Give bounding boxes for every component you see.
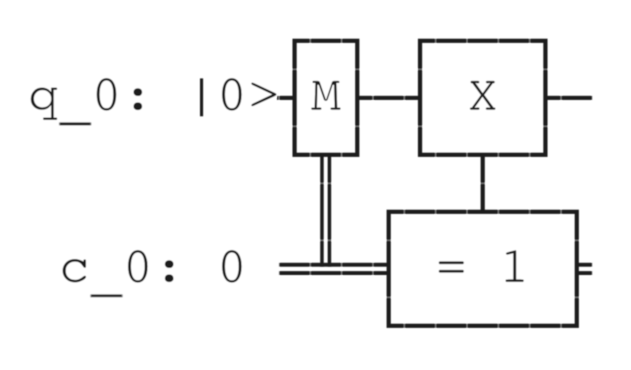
qubit label glyph _	[58, 122, 92, 126]
classical wire lower line, right segment	[577, 271, 593, 275]
measurement double line from M to classical wire, left strand	[320, 155, 324, 267]
classical wire upper line, left segment	[279, 263, 389, 267]
control line X gate to condition box	[481, 153, 485, 213]
ket digit 0 of initial state	[221, 77, 242, 111]
classical label glyph _	[90, 294, 124, 298]
classical condition box = 1	[389, 212, 577, 326]
classical label glyph :	[164, 260, 174, 283]
qubit wire segment M to X	[356, 96, 421, 100]
condition label 1	[505, 250, 524, 283]
X gate box	[420, 41, 545, 155]
ket bar | of initial state |0>	[200, 78, 203, 116]
classical label glyph 0	[127, 249, 148, 283]
measurement gate label M	[311, 80, 342, 110]
qubit label glyph q	[30, 87, 58, 121]
qubit wire segment |0> to gate M	[277, 96, 295, 100]
classical label glyph c	[62, 258, 87, 283]
classical wire lower line, left segment	[279, 271, 389, 275]
measurement gate box M	[295, 41, 358, 155]
measurement double line from M to classical wire, right strand	[328, 155, 332, 267]
X gate label	[469, 80, 496, 110]
qubit label glyph :	[133, 88, 143, 111]
qubit wire segment after X	[545, 96, 592, 100]
ket bracket > of initial state	[251, 82, 278, 107]
classical wire upper line, right segment	[577, 263, 593, 267]
qubit label glyph 0	[96, 77, 117, 111]
classical initial value 0	[221, 249, 242, 283]
condition label =	[438, 261, 464, 273]
